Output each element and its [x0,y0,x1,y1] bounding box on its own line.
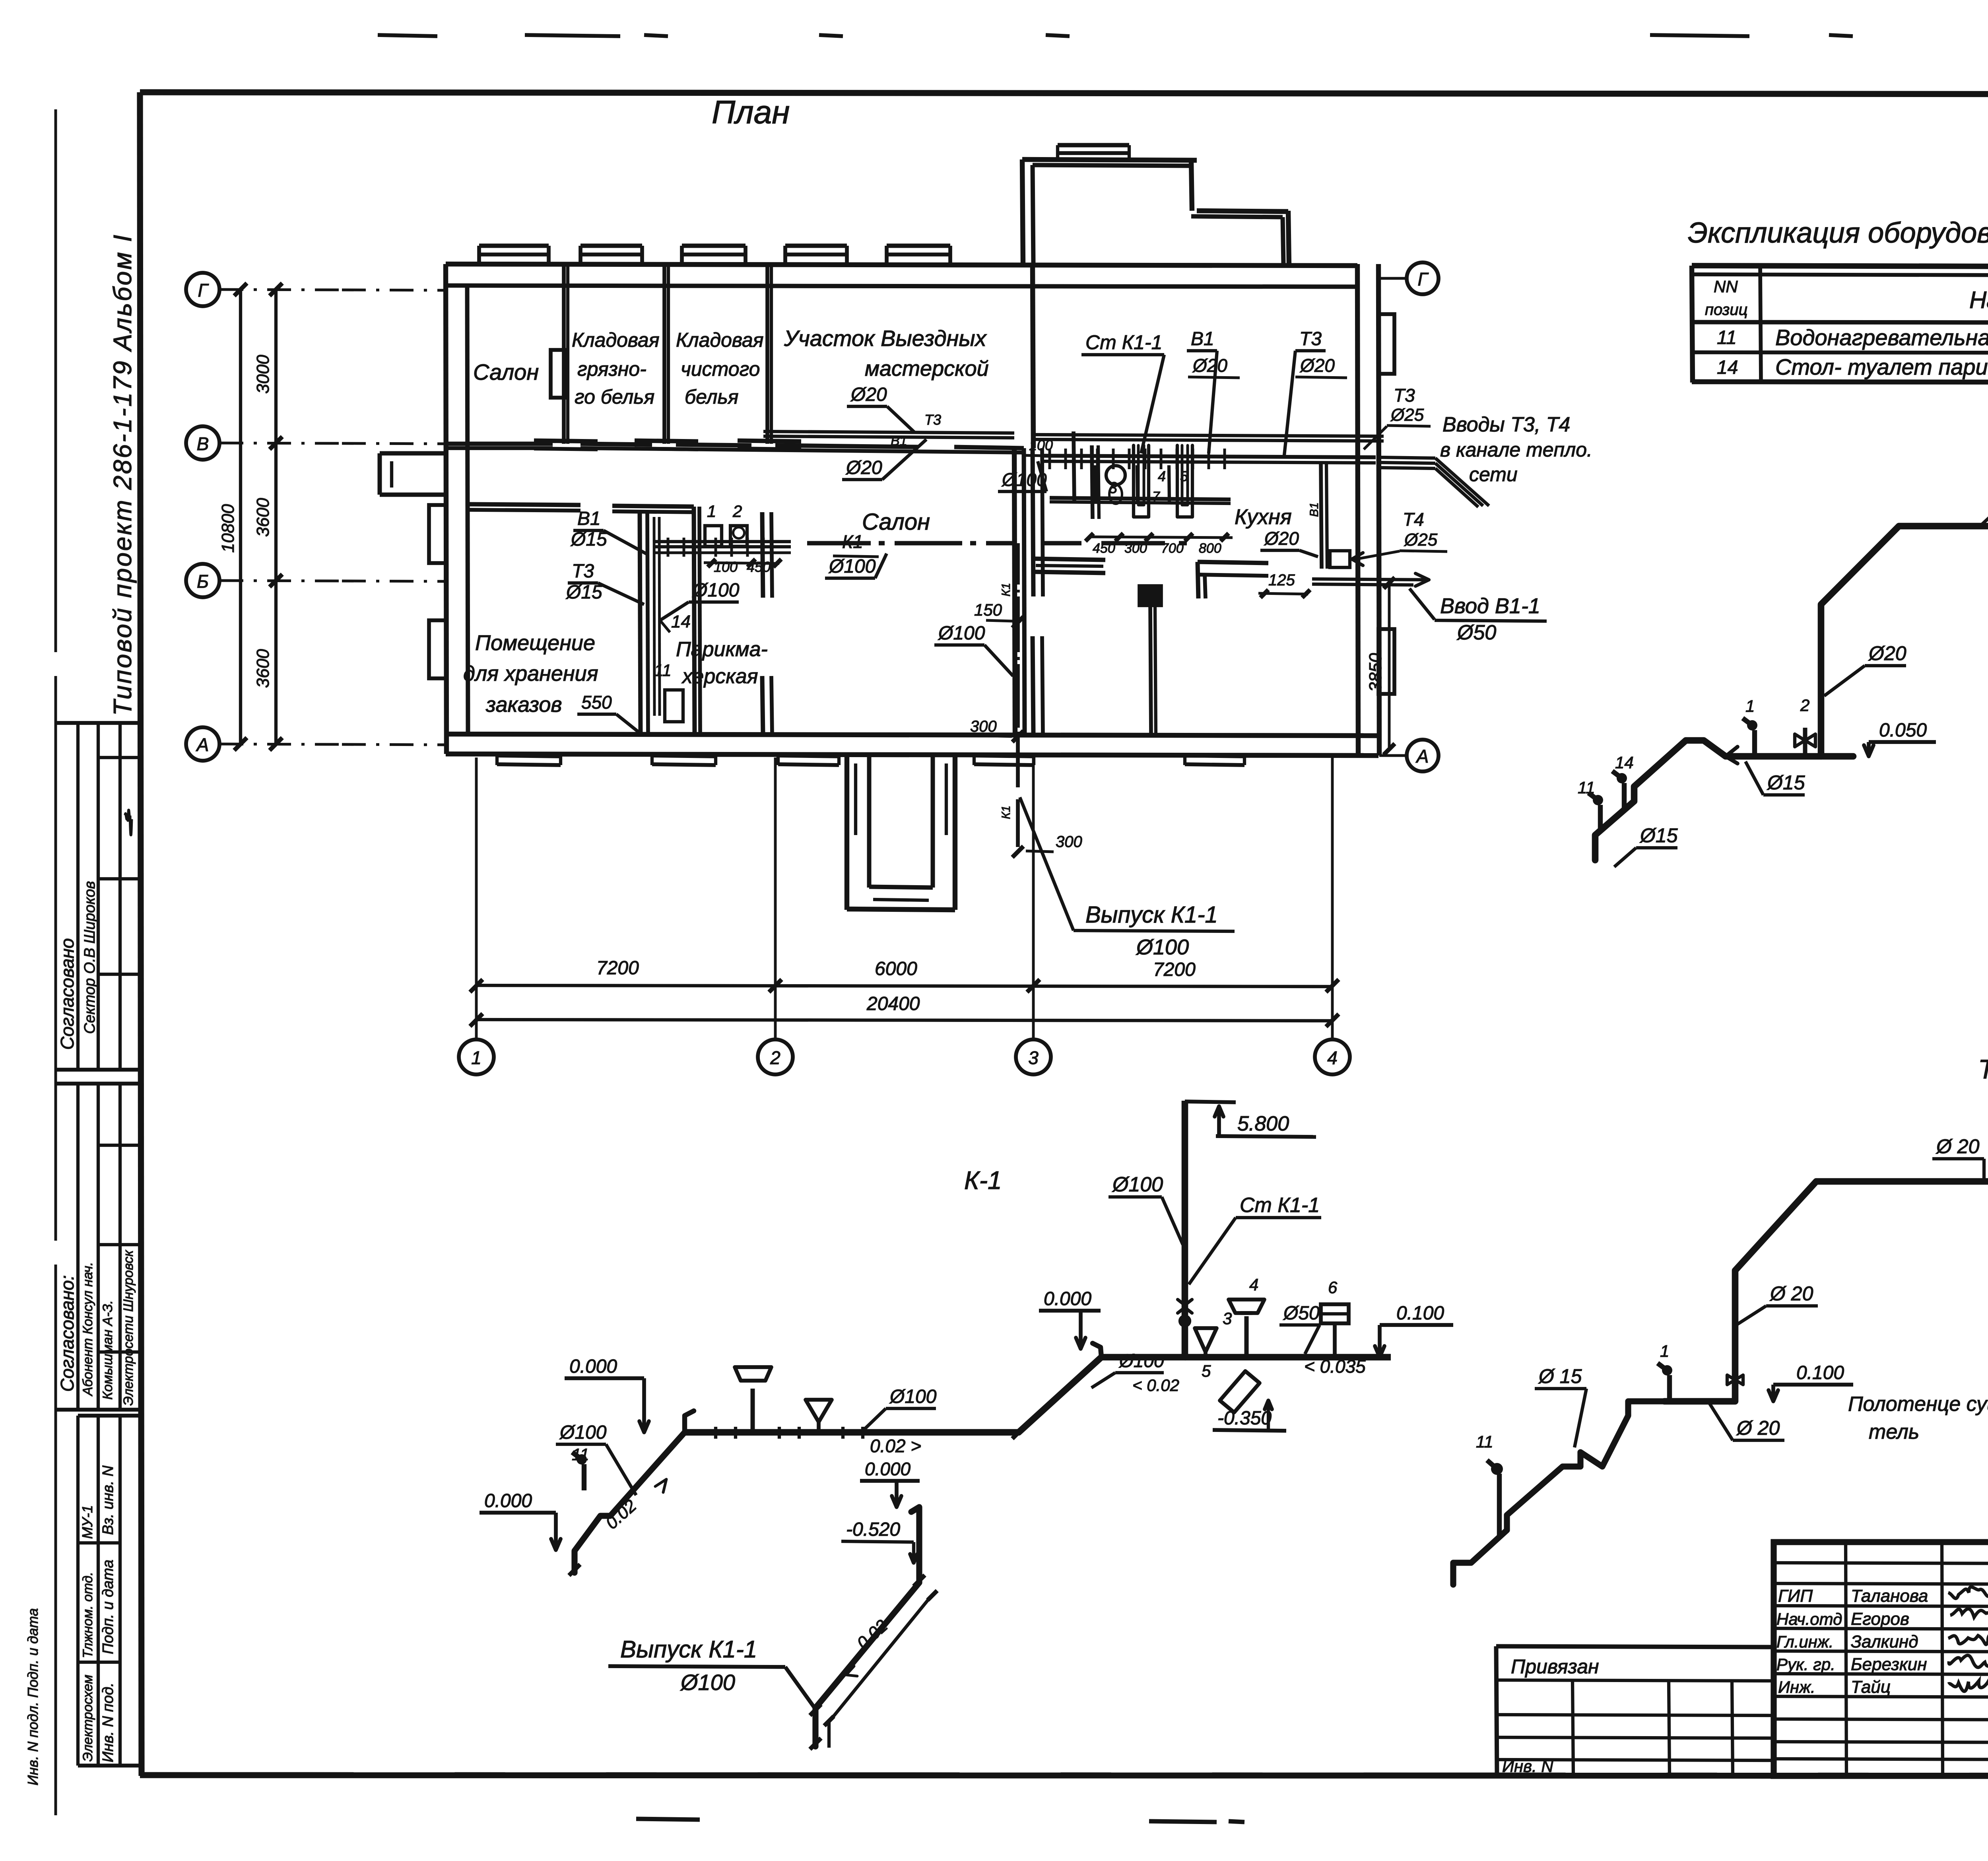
svg-text:План: План [712,94,790,130]
svg-text:2: 2 [1800,696,1809,715]
svg-text:Рук. гр.: Рук. гр. [1776,1655,1835,1674]
svg-text:Ст К1-1: Ст К1-1 [1085,331,1162,354]
svg-text:-0.350: -0.350 [1217,1408,1272,1429]
svg-text:3850: 3850 [1366,653,1385,692]
title block outer [1774,1542,1988,1776]
svg-text:Ø100: Ø100 [828,556,876,577]
svg-text:2: 2 [732,502,742,521]
svg-text:мастерской: мастерской [865,357,989,381]
svg-text:300: 300 [1056,833,1082,851]
title block signatures [1948,1587,1988,1599]
plan cabinet in kladovaya [551,350,566,398]
plan interior partitions top rooms [562,266,566,444]
svg-text:4: 4 [1158,468,1166,484]
plan sanitary fixtures [1106,466,1125,485]
plan pipes exiting right [1378,457,1435,458]
svg-text:1: 1 [1660,1342,1669,1360]
svg-text:7200: 7200 [596,958,639,979]
svg-text:Полотенце суши-: Полотенце суши- [1848,1393,1988,1416]
svg-text:Ввод В1-1: Ввод В1-1 [1440,594,1540,618]
K1 fixture 3 drain [1195,1328,1217,1352]
svg-text:3: 3 [1028,1047,1039,1068]
plan windows top (left block) [479,244,549,248]
svg-text:Ø50: Ø50 [1283,1303,1320,1324]
plan sanitary stall walls [1074,431,1074,502]
plan K1 vertical dash [1016,543,1020,585]
svg-text:Электросети Шнуровск: Электросети Шнуровск [121,1249,136,1406]
svg-text:0.02 >: 0.02 > [870,1436,921,1456]
plan bottom windows [497,756,561,756]
svg-text:В1: В1 [1308,502,1321,517]
svg-text:Абонент Консул нач.: Абонент Консул нач. [80,1262,95,1397]
svg-text:позиц: позиц [1705,301,1748,319]
svg-text:Егоров: Егоров [1851,1609,1909,1629]
svg-text:Согласовано:: Согласовано: [57,1275,78,1392]
T3T4 fixture 1 [1667,1375,1672,1401]
svg-text:Гл.инж.: Гл.инж. [1776,1632,1833,1651]
svg-text:6: 6 [1328,1278,1338,1297]
svg-text:заказов: заказов [485,693,562,717]
svg-text:11: 11 [572,1445,589,1464]
svg-text:Ø100: Ø100 [559,1422,607,1443]
svg-text:Кладовая: Кладовая [572,329,659,351]
svg-text:Б: Б [197,571,209,592]
B1 fixture 11 [1598,805,1603,831]
svg-text:херская: херская [681,665,758,688]
K1 right horizontal [1185,1354,1391,1361]
svg-text:Ø50: Ø50 [1456,621,1496,644]
svg-text:В: В [197,433,209,454]
plan corridor pipe run (V1 T3 to right) [763,431,1014,433]
svg-text:100: 100 [1029,437,1053,453]
svg-text:Согласовано: Согласовано [57,938,78,1050]
svg-text:Нач.отд: Нач.отд [1776,1610,1842,1628]
svg-text:11: 11 [654,661,672,680]
svg-text:Экспликация оборудования па: Экспликация оборудования парикмахерской [1688,217,1988,249]
svg-text:Инв. N подл. Подп. и дата: Инв. N подл. Подп. и дата [25,1608,41,1785]
svg-text:5.800: 5.800 [1237,1112,1289,1135]
plan axis circles left [186,273,219,306]
svg-text:чистого: чистого [681,358,760,380]
title block small table grid [1774,1563,1988,1564]
svg-text:1: 1 [707,502,716,521]
privyazan strip [1496,1646,1774,1647]
plan interior lower-left rooms [468,504,580,505]
svg-text:125: 125 [1268,571,1295,589]
svg-text:Вз. инв. N: Вз. инв. N [100,1465,116,1535]
main frame border [140,92,1988,95]
plan vertical dim 3850 [1388,581,1391,750]
svg-text:0.050: 0.050 [1879,720,1927,741]
T3T4 lower run and riser [1664,1181,1988,1401]
svg-text:ГИП: ГИП [1778,1586,1813,1606]
svg-text:Стол- туалет парикмахерский: Стол- туалет парикмахерский [1775,354,1988,379]
svg-text:Т3, Т4: Т3, Т4 [1978,1054,1988,1084]
svg-text:Т4: Т4 [1403,509,1424,530]
plan axes extension lines left [219,289,342,290]
svg-text:1: 1 [1745,697,1755,715]
svg-text:Кухня: Кухня [1235,505,1292,529]
svg-text:0.100: 0.100 [1796,1362,1844,1383]
K1 left connection [1019,1357,1185,1432]
K1 stack circle marker [1178,1300,1192,1305]
B1 fixtures 1 2 [1752,730,1757,756]
svg-text:в канале тепло.: в канале тепло. [1440,439,1592,461]
svg-text:А: А [1415,746,1429,767]
K1 left end hook [685,1411,694,1432]
svg-text:Салон: Салон [862,509,930,535]
svg-text:В1: В1 [1191,328,1214,350]
svg-text:2: 2 [770,1047,780,1068]
svg-text:NN: NN [1714,277,1738,296]
plan bottom dimension rows [476,985,1332,987]
plan sanitary dim row [1089,537,1233,538]
svg-text:550: 550 [581,692,612,713]
svg-text:150: 150 [974,600,1002,619]
svg-text:Т3: Т3 [924,412,941,428]
svg-text:тель: тель [1869,1420,1919,1443]
svg-text:Ø20: Ø20 [845,457,882,478]
plan interior right block walls [1034,559,1105,560]
svg-text:5: 5 [1202,1362,1211,1380]
svg-text:Ø100: Ø100 [1112,1173,1163,1196]
svg-text:Ø15: Ø15 [1767,771,1805,794]
svg-text:Ø25: Ø25 [1404,530,1438,550]
plan right wall window [1378,314,1394,374]
plan right block right wall [1357,264,1358,754]
svg-text:Сектор О.В Широков: Сектор О.В Широков [82,881,98,1034]
svg-text:Ø100: Ø100 [1136,935,1189,959]
svg-text:Салон: Салон [473,359,539,385]
svg-text:Таланова: Таланова [1851,1586,1928,1606]
B1 fixture 14 [1622,783,1627,809]
svg-text:14: 14 [1717,357,1738,378]
svg-text:6000: 6000 [875,958,917,979]
svg-text:Ø20: Ø20 [850,384,887,405]
svg-text:Ø100: Ø100 [680,1670,735,1695]
K1 funnel fixture [806,1400,832,1422]
left stamp column grid [56,721,140,725]
svg-text:К1: К1 [1000,806,1013,819]
svg-text:го белья: го белья [575,386,654,408]
svg-text:0.000: 0.000 [1044,1288,1091,1309]
plan axis circles right [1379,277,1407,280]
K1 left horizontal [685,1429,1019,1436]
svg-text:Т3: Т3 [1299,328,1322,350]
svg-text:Парикма-: Парикма- [676,638,768,661]
svg-text:Выпуск К1-1: Выпуск К1-1 [1085,902,1218,928]
left stamp lower block (inv / podp) [78,1414,140,1418]
svg-text:Ø15: Ø15 [570,529,607,550]
svg-text:100: 100 [714,559,738,575]
svg-text:Инв. N под.: Инв. N под. [100,1682,116,1762]
svg-text:11: 11 [1717,327,1737,348]
svg-text:4: 4 [1327,1047,1338,1068]
plan right wall lower window [1378,629,1394,694]
svg-text:Участок Выездных: Участок Выездных [784,326,987,351]
svg-text:К1: К1 [842,531,863,552]
svg-text:1: 1 [471,1047,481,1068]
svg-text:3600: 3600 [253,498,273,537]
T3T4 valve on riser [1727,1375,1743,1385]
K1 fixture 4 basin [1244,1316,1249,1357]
K1 stack [1182,1101,1188,1357]
plan bottom wall [446,734,1378,736]
svg-text:Вводы Т3, Т4: Вводы Т3, Т4 [1442,413,1570,436]
plan left porch [380,451,446,456]
plan left wall openings [429,505,447,563]
B1 riser and top run [1821,526,1988,756]
svg-text:800: 800 [1199,541,1221,556]
svg-text:Помещение: Помещение [475,631,595,655]
T3T4 fixture 11 [1497,1474,1502,1538]
svg-text:Ø20: Ø20 [1299,355,1335,376]
svg-text:3: 3 [1109,479,1117,497]
svg-text:14: 14 [671,612,691,631]
svg-text:4: 4 [1249,1275,1258,1294]
svg-text:Ø 20: Ø 20 [1769,1282,1813,1305]
svg-text:11: 11 [1578,778,1595,797]
svg-text:для хранения: для хранения [463,662,598,686]
plan top wall lines [446,264,1357,266]
svg-text:Березкин: Березкин [1851,1655,1927,1674]
plan left wall [446,264,447,754]
svg-text:0.000: 0.000 [865,1459,911,1479]
plan salon west wall fragments [762,512,763,598]
plan annex walls (upper right) [1022,159,1023,264]
K1 lower-left tail [575,1432,685,1573]
sheet outer left margin line [54,109,57,652]
B1 main pipe left tail [1595,740,1853,860]
K1 combs [714,1427,717,1439]
svg-text:< 0.035: < 0.035 [1304,1356,1366,1377]
svg-text:11: 11 [1476,1432,1493,1451]
svg-text:-0.520: -0.520 [846,1519,900,1540]
svg-text:Ø100: Ø100 [889,1386,937,1407]
svg-text:10800: 10800 [218,504,238,553]
svg-text:7: 7 [1152,489,1160,504]
svg-text:Ø 20: Ø 20 [1736,1417,1780,1439]
svg-text:МУ-1: МУ-1 [79,1505,95,1539]
svg-text:белья: белья [685,386,738,408]
svg-text:К-1: К-1 [964,1166,1002,1195]
svg-text:3000: 3000 [253,355,273,394]
svg-text:14: 14 [1615,753,1634,772]
svg-text:Ø25: Ø25 [1390,405,1424,425]
plan riser combs sanitary [1048,449,1051,469]
plan entrance protrusion [845,754,849,910]
svg-text:Ст К1-1: Ст К1-1 [1240,1194,1320,1217]
K1 fixture 6 box [1321,1304,1349,1323]
svg-text:Ø20: Ø20 [1868,642,1906,664]
svg-text:Инв. N: Инв. N [1502,1757,1553,1776]
svg-text:Г: Г [198,280,209,301]
K1 fixture 5 bath [1220,1371,1260,1412]
svg-text:Наименование: Наименование [1969,287,1988,313]
plan pipe run lower pair [1042,456,1376,457]
svg-text:Т3: Т3 [1394,385,1415,406]
plan bottom axis circles [459,1039,494,1074]
T3T4 main pipe left tail [1453,1401,1664,1585]
svg-text:Тайц: Тайц [1851,1677,1891,1697]
svg-text:В1: В1 [891,433,907,449]
plan plumbing chase parikmakherskaya [640,512,641,734]
svg-text:Ø 20: Ø 20 [1936,1135,1980,1158]
plan kitchen riser V1 T4 [1321,463,1322,569]
svg-text:Инж.: Инж. [1778,1678,1815,1696]
plan interior: top rooms bottom wall [446,442,553,446]
svg-text:0.100: 0.100 [1396,1303,1444,1324]
K1 basin fixture [751,1389,755,1432]
svg-text:0.000: 0.000 [484,1490,532,1511]
svg-text:Г: Г [1417,269,1429,289]
svg-text:Ø100: Ø100 [692,580,740,601]
svg-text:Ø20: Ø20 [1192,355,1227,376]
plan K1 dash-dot main [807,541,871,546]
svg-text:20400: 20400 [866,993,920,1014]
svg-text:< 0.02: < 0.02 [1132,1376,1179,1395]
B1 left end arrow [1726,747,1738,763]
plan fixtures parikmakherskaya row [654,540,791,543]
svg-text:Привязан: Привязан [1511,1655,1599,1678]
svg-text:300: 300 [970,718,997,735]
sheet top broken trim line [378,35,437,36]
svg-text:Ø15: Ø15 [565,582,602,603]
svg-text:Ø 15: Ø 15 [1538,1365,1582,1387]
svg-text:3: 3 [1223,1309,1232,1328]
svg-text:Залкинд: Залкинд [1851,1632,1918,1651]
plan corridor wall (center) [1014,448,1015,734]
plan annex window [1058,143,1129,148]
svg-text:Тлжном. отд.: Тлжном. отд. [80,1572,95,1658]
svg-text:Выпуск К1-1: Выпуск К1-1 [620,1636,757,1663]
svg-text:Типовой проект 286-1-179 Ал: Типовой проект 286-1-179 Альбом I [108,233,137,716]
svg-text:Ø15: Ø15 [1639,824,1678,847]
bottom trim dashes [636,1819,700,1820]
svg-text:А: А [196,734,209,755]
plan label Vvod V1-1 d50 [1312,579,1427,580]
plan left dimension chain [274,289,278,744]
svg-text:Комышман А-З.: Комышман А-З. [100,1300,115,1400]
svg-text:сети: сети [1469,463,1518,486]
svg-text:Кладовая: Кладовая [676,329,763,351]
K1 outfall branch [815,1507,919,1746]
equipment table grid [1692,266,1988,267]
svg-text:Ø100: Ø100 [938,623,985,644]
svg-text:Т3: Т3 [572,561,594,582]
svg-text:Подп. и дата: Подп. и дата [100,1560,116,1654]
svg-text:Водонагревательная установка: Водонагревательная установка [1775,325,1988,350]
svg-text:0.000: 0.000 [569,1356,617,1377]
svg-text:Ø100: Ø100 [1118,1350,1164,1371]
svg-text:Электросхем: Электросхем [80,1675,95,1762]
svg-text:5: 5 [1180,468,1188,484]
svg-text:К1: К1 [1000,583,1013,596]
svg-text:Ø20: Ø20 [1264,528,1299,549]
svg-text:7200: 7200 [1153,959,1196,980]
K1 outfall dim line [829,1595,932,1722]
svg-text:3600: 3600 [253,649,273,688]
K1 fixture 11 tail [582,1464,586,1490]
svg-text:грязно-: грязно- [577,358,646,380]
svg-text:В1: В1 [577,508,601,529]
